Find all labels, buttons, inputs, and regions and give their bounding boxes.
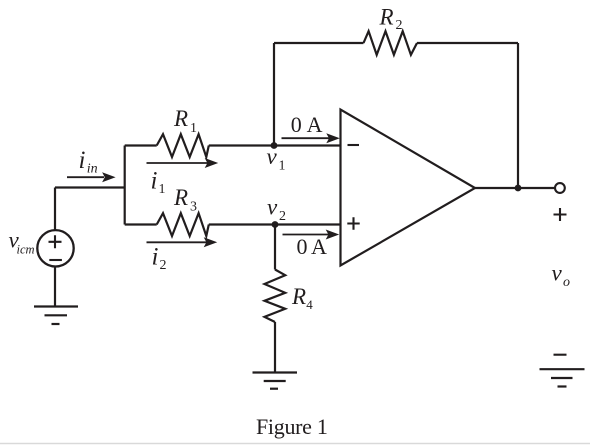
wire: input branch vertical <box>124 146 126 225</box>
ground (right, output reference) <box>540 369 585 386</box>
op-amp plus input sign <box>347 217 359 229</box>
svg-text:A: A <box>311 234 327 259</box>
svg-text:v: v <box>267 195 278 220</box>
svg-text:icm: icm <box>17 243 35 257</box>
svg-text:i: i <box>152 244 159 271</box>
current arrow 0A into plus input <box>283 230 340 240</box>
svg-text:1: 1 <box>279 159 286 174</box>
svg-text:o: o <box>563 275 570 290</box>
minus sign inside source <box>49 259 62 261</box>
label v_icm <box>9 228 35 257</box>
svg-text:A: A <box>307 112 323 137</box>
svg-text:R: R <box>291 284 306 309</box>
wire: feedback top-right horizontal segment <box>417 42 518 44</box>
label i_in <box>79 147 98 177</box>
svg-text:R: R <box>173 106 188 131</box>
svg-text:3: 3 <box>190 199 197 214</box>
ground (left, below source) <box>34 307 78 325</box>
svg-text:2: 2 <box>279 209 286 224</box>
plus sign at output terminal <box>554 208 567 221</box>
label v_1 <box>267 144 286 174</box>
label v_2 <box>267 195 286 225</box>
svg-text:i: i <box>151 168 158 195</box>
svg-text:R: R <box>379 5 394 30</box>
label R4 <box>291 284 313 312</box>
label v_o <box>552 261 571 291</box>
minus sign at output reference <box>554 354 567 356</box>
wire: feedback left vertical (to node v1) <box>273 43 275 146</box>
svg-text:1: 1 <box>190 121 197 136</box>
svg-text:v: v <box>267 144 278 169</box>
wire: source vertical lower <box>54 267 56 307</box>
resistor R4 <box>265 270 286 323</box>
wire: op-amp output <box>475 187 555 189</box>
wire: top branch left segment <box>125 144 157 146</box>
svg-text:4: 4 <box>306 297 313 312</box>
op-amp minus input sign <box>348 144 360 146</box>
page bottom rule <box>0 443 590 445</box>
wire: source horizontal to branch point <box>55 186 125 188</box>
label R1 <box>173 106 197 136</box>
op-amp U1 triangle <box>341 110 476 266</box>
svg-text:0: 0 <box>291 112 302 137</box>
output node junction dot <box>515 185 522 192</box>
label R2 <box>379 5 403 34</box>
label R3 <box>173 185 197 215</box>
wire: feedback right vertical (to output) <box>517 43 519 188</box>
resistor R3 <box>157 213 209 236</box>
wire: source vertical upper <box>54 188 56 231</box>
svg-text:2: 2 <box>396 18 403 33</box>
ground (center, below R4) <box>253 373 298 389</box>
svg-text:Figure 1: Figure 1 <box>256 414 328 439</box>
current arrow i1 <box>147 158 219 168</box>
current arrow i_in <box>67 172 116 182</box>
label i_1 <box>151 168 166 198</box>
node v2 junction dot <box>272 221 279 228</box>
svg-text:2: 2 <box>160 258 167 273</box>
current arrow 0A into minus input <box>282 133 340 143</box>
svg-text:i: i <box>79 147 86 174</box>
svg-text:R: R <box>173 185 188 210</box>
wire: feedback top-left horizontal segment <box>274 42 364 44</box>
svg-text:1: 1 <box>159 182 166 197</box>
resistor R1 <box>157 134 209 157</box>
svg-text:in: in <box>87 162 98 177</box>
current arrow i2 <box>147 237 218 247</box>
wire: R4 down to ground <box>274 322 276 373</box>
wire: bottom branch left segment <box>125 223 157 225</box>
node v1 junction dot <box>271 142 278 149</box>
wire: v2 node down to R4 <box>274 225 276 270</box>
output terminal (open circle) <box>555 183 565 193</box>
plus sign inside source <box>49 235 62 248</box>
voltage source V_icm circle <box>37 230 73 266</box>
label i_2 <box>152 244 167 274</box>
resistor R2 <box>364 31 418 55</box>
wire: top branch right segment to op-amp minus input <box>209 144 341 146</box>
svg-text:v: v <box>552 261 563 286</box>
wire: bottom branch right segment to op-amp plus input <box>209 223 341 225</box>
svg-text:0: 0 <box>297 234 308 259</box>
